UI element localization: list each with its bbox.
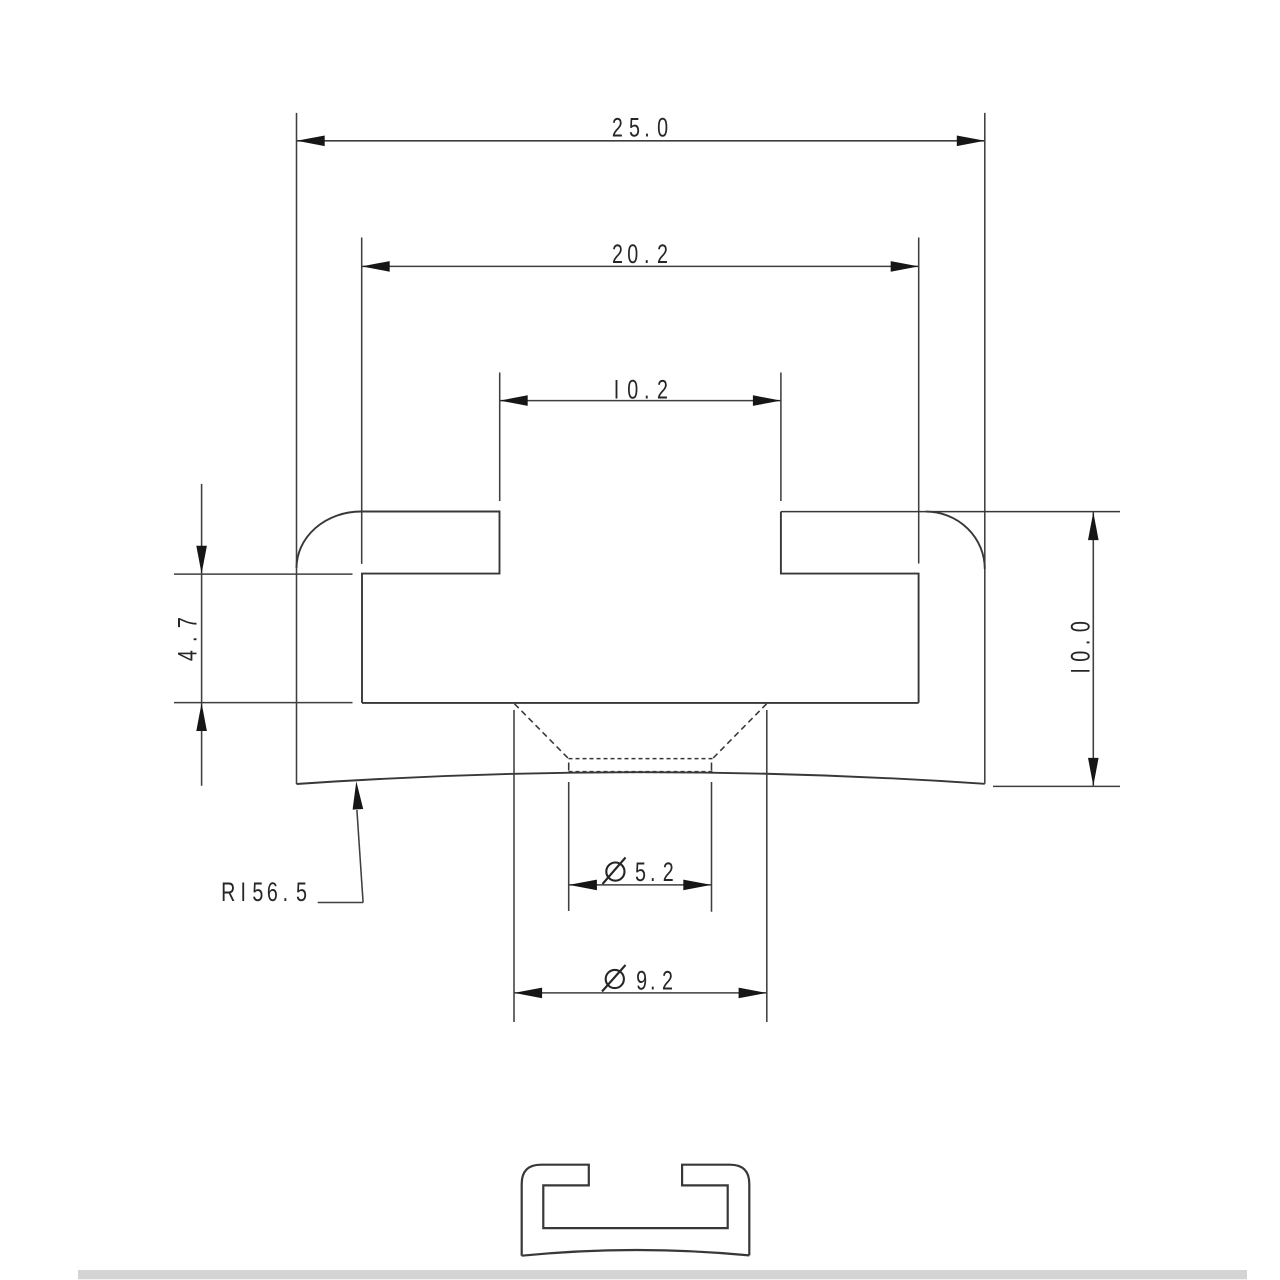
thumbnail profile outline [522, 1165, 750, 1256]
dim 4.7 arrow upper (points down) [196, 546, 207, 574]
svg-text:2: 2 [657, 376, 668, 406]
svg-text:0: 0 [1067, 621, 1097, 632]
dim 5.2 arrow left [569, 880, 597, 891]
dim 25.0 dimension line [297, 140, 985, 142]
dim 4.7 dimension line [201, 484, 203, 786]
dim 25.0 extension line right / profile outer-right edge [984, 113, 986, 784]
hole right wall (dashed, short) [711, 763, 713, 771]
dim 20.2 extension line right [918, 238, 920, 564]
bottom gray bar [78, 1270, 1247, 1279]
dim 5.2 diameter symbol [606, 863, 624, 881]
thumbnail profile bottom arc [522, 1250, 750, 1256]
svg-text:5: 5 [252, 878, 263, 908]
dim 10.2 arrow right [753, 395, 781, 406]
svg-text:2: 2 [663, 858, 674, 888]
svg-text:I: I [614, 376, 619, 406]
svg-text:.: . [283, 878, 288, 908]
svg-text:.: . [650, 967, 655, 997]
R156.5 leader line [357, 810, 363, 903]
svg-text:2: 2 [612, 240, 623, 270]
svg-text:R: R [221, 878, 235, 908]
svg-text:9: 9 [636, 967, 647, 997]
dim 10.0 arrow top (points up) [1088, 512, 1099, 540]
dim 9.2 arrow left [514, 988, 542, 999]
dim 9.2 diameter symbol [606, 970, 624, 988]
svg-text:.: . [644, 114, 649, 144]
hole left wall (dashed, short) [568, 763, 570, 771]
dim 25.0 arrow left [297, 136, 325, 147]
svg-text:I: I [1067, 668, 1097, 673]
svg-text:.: . [174, 637, 204, 642]
svg-text:.: . [1067, 640, 1097, 645]
svg-text:5: 5 [296, 878, 307, 908]
hole exit at bottom face (dotted) [569, 771, 713, 773]
dim 5.2 arrow right [683, 880, 711, 891]
profile right: channel wall, lip underside, slot right wall [781, 512, 919, 703]
dim 10.0 arrow bottom (points down) [1088, 758, 1099, 786]
dim 4.7 text (rotated) [174, 650, 204, 661]
countersink left flank (dashed) [515, 704, 569, 759]
dim 10.0 text (rotated) [1067, 668, 1097, 673]
dim 4.7 extension line bottom [174, 702, 353, 704]
profile channel bottom [362, 702, 919, 704]
svg-text:2: 2 [657, 240, 668, 270]
svg-text:2: 2 [612, 114, 623, 144]
dim 5.2 dimension line [569, 884, 711, 886]
dim 20.2 arrow right [891, 261, 919, 272]
dim 4.7 extension line top [174, 573, 353, 575]
R156.5 leader underline [318, 902, 363, 904]
svg-text:5: 5 [629, 114, 640, 144]
R156.5 leader arrow [353, 781, 364, 809]
dim 5.2 extension line right [711, 782, 713, 912]
svg-text:4: 4 [174, 650, 204, 661]
dim 25.0 arrow right [957, 136, 985, 147]
svg-text:I: I [240, 878, 245, 908]
svg-text:0: 0 [657, 114, 668, 144]
profile top-left fillet arc [297, 512, 362, 569]
countersink right flank (dashed) [713, 704, 767, 759]
profile right lip top edge merged with 10.0 top extension line [781, 511, 1120, 513]
svg-text:7: 7 [174, 617, 204, 628]
svg-text:0: 0 [1067, 651, 1097, 662]
dim 10.0 dimension line [1092, 512, 1094, 786]
dim 4.7 arrow lower (points up) [196, 703, 207, 731]
dim 20.2 arrow left [362, 261, 390, 272]
dim 5.2 extension line left [568, 782, 570, 911]
dim 9.2 arrow right [739, 988, 767, 999]
svg-text:.: . [650, 858, 655, 888]
svg-text:.: . [644, 240, 649, 270]
dim 25.0 extension line left / profile outer-left edge [296, 113, 298, 784]
dim 9.2 extension line left [513, 710, 515, 1022]
dim 9.2 extension line right [766, 710, 768, 1022]
svg-text:.: . [644, 376, 649, 406]
dim 20.2 extension line left [361, 238, 363, 564]
svg-text:2: 2 [662, 967, 673, 997]
svg-text:6: 6 [267, 878, 278, 908]
countersink bottom / hole top (dotted) [569, 758, 713, 760]
dim 9.2 dimension line [514, 992, 767, 994]
dim 10.0 extension line bottom [993, 785, 1120, 787]
profile left lip: top edge, slot left wall, underside, channel left wall [361, 512, 500, 703]
svg-text:5: 5 [635, 858, 646, 888]
dim 10.2 extension line right [780, 373, 782, 502]
dim 20.2 dimension line [362, 265, 919, 267]
dim 10.2 dimension line [500, 400, 781, 402]
dim 10.2 extension line left [499, 373, 501, 502]
profile top-right fillet arc [926, 512, 985, 569]
svg-text:0: 0 [627, 240, 638, 270]
svg-text:0: 0 [627, 376, 638, 406]
profile bottom arc R156.5 [297, 772, 985, 784]
dim 10.2 arrow left [500, 395, 528, 406]
